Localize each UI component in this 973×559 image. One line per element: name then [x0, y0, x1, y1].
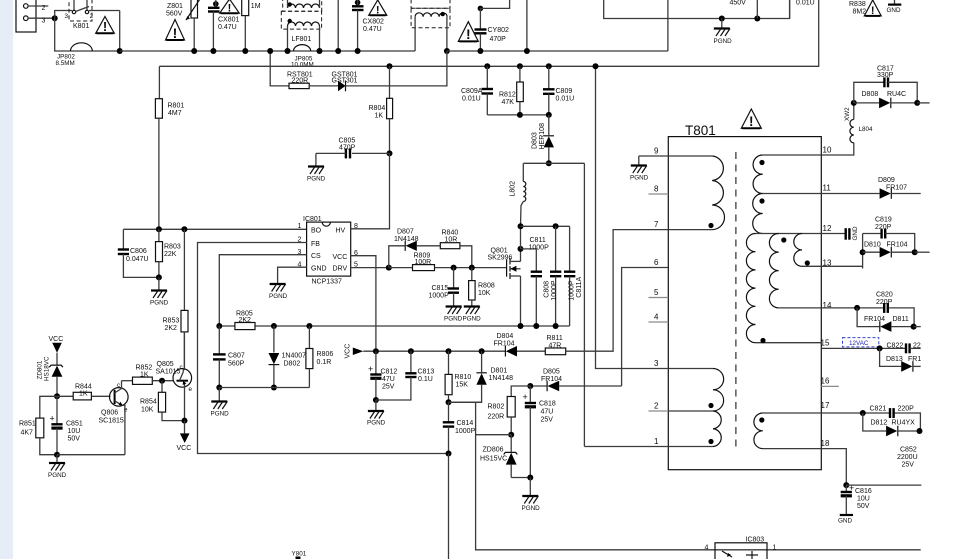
resistor R811: [545, 348, 565, 355]
svg-text:0.47U: 0.47U: [218, 24, 237, 31]
capacitor CY802: [475, 0, 510, 51]
svg-text:FR104: FR104: [887, 242, 908, 249]
wire BO rail: [123, 228, 306, 230]
zener ZD806: [504, 435, 518, 478]
node drain jog C811: [518, 246, 524, 252]
IC op U IC801: [298, 216, 359, 276]
node: [373, 397, 379, 403]
svg-text:9: 9: [654, 147, 659, 156]
wire CS line: [219, 255, 306, 326]
capacitor C817: [854, 77, 917, 103]
warning triangle CX802: [369, 0, 387, 17]
svg-text:!: !: [871, 5, 875, 17]
svg-text:47U: 47U: [541, 409, 554, 416]
warning triangle R838: [864, 0, 881, 17]
svg-text:C851: C851: [66, 421, 83, 428]
core dashed line: [735, 152, 737, 448]
diode D807: [389, 241, 441, 268]
node: [851, 100, 857, 106]
svg-text:c: c: [117, 382, 120, 389]
wire RBT bypass: [270, 51, 289, 86]
node: [191, 48, 197, 54]
svg-text:1000P: 1000P: [529, 245, 550, 252]
svg-text:R804: R804: [369, 105, 386, 112]
warning triangle CX801: [220, 0, 240, 15]
svg-text:5: 5: [654, 288, 659, 297]
diode D804: [505, 346, 545, 357]
svg-text:C818: C818: [539, 401, 556, 408]
svg-text:FR104: FR104: [864, 316, 885, 323]
wire R840 to gate row: [460, 246, 472, 268]
resistor R801: [155, 66, 162, 229]
wire rail1 end up: [667, 0, 669, 51]
svg-text:D811: D811: [893, 316, 909, 323]
node: [271, 385, 277, 391]
svg-text:PGND: PGND: [48, 472, 67, 479]
svg-text:R812: R812: [499, 92, 516, 99]
warning triangle T801: [741, 109, 761, 129]
svg-text:100R: 100R: [415, 259, 432, 266]
node: [182, 418, 188, 424]
svg-text:L802: L802: [510, 181, 517, 197]
svg-text:14: 14: [823, 301, 832, 310]
node filter output: [444, 48, 450, 54]
wire bulk cap lead: [756, 0, 758, 19]
svg-text:VCC: VCC: [49, 336, 64, 343]
svg-text:0.01U: 0.01U: [556, 96, 575, 103]
svg-text:R844: R844: [75, 384, 92, 391]
svg-text:CY802: CY802: [488, 27, 510, 34]
svg-text:CS: CS: [311, 253, 321, 260]
svg-text:PGND: PGND: [307, 176, 326, 183]
svg-text:HS18VC: HS18VC: [44, 356, 51, 381]
svg-text:1000P: 1000P: [455, 428, 476, 435]
svg-text:C852: C852: [900, 447, 917, 454]
svg-text:47U: 47U: [382, 376, 395, 383]
svg-text:12VAC: 12VAC: [849, 340, 869, 347]
jumper JP802: [71, 43, 93, 51]
winding secondary S4 mid tap (to 14): [769, 234, 821, 308]
svg-text:C814: C814: [457, 420, 474, 427]
wire down to rail: [119, 11, 121, 52]
svg-text:!: !: [228, 3, 232, 15]
svg-text:10K: 10K: [141, 407, 154, 414]
svg-text:2: 2: [654, 402, 659, 411]
resistor R810: [445, 351, 452, 402]
capacitor C809: [543, 63, 555, 115]
resistor R805: [235, 323, 255, 330]
svg-text:C822: C822: [887, 343, 904, 350]
resistor R804: [387, 66, 393, 153]
svg-text:R851: R851: [19, 421, 36, 428]
svg-text:2: 2: [90, 13, 94, 20]
resistor R844: [57, 392, 111, 400]
node R810 bottom: [446, 399, 452, 405]
svg-text:0.47U: 0.47U: [363, 26, 382, 33]
node: [285, 48, 291, 54]
svg-text:220P: 220P: [876, 299, 893, 306]
wire drain rail: [520, 226, 522, 249]
ground PGND C818: [522, 478, 541, 513]
node clamp: [546, 160, 552, 166]
svg-text:50V: 50V: [68, 436, 81, 443]
svg-text:!: !: [466, 26, 471, 42]
svg-text:47K: 47K: [502, 99, 515, 106]
node: [210, 48, 216, 54]
wire sense bottom: [219, 387, 309, 389]
capacitor C822: [906, 342, 921, 354]
node: [917, 428, 923, 434]
ground PGND R808: [463, 307, 482, 323]
svg-text:4: 4: [654, 313, 659, 322]
wire R811 to pin7: [566, 230, 668, 352]
ground PGND left: [48, 455, 67, 479]
ground GND C816: [838, 515, 853, 525]
svg-text:+: +: [368, 364, 373, 374]
svg-text:GST301: GST301: [332, 78, 358, 85]
wire snubber bottom: [487, 114, 549, 116]
wire output rail: [846, 484, 921, 486]
svg-text:+: +: [523, 392, 528, 402]
node: [524, 48, 530, 54]
svg-text:FR1: FR1: [908, 356, 921, 363]
svg-text:ZD801: ZD801: [37, 360, 44, 379]
svg-text:R801: R801: [168, 103, 185, 110]
svg-text:3: 3: [65, 13, 69, 20]
node: [477, 48, 483, 54]
diode D808: [854, 98, 917, 109]
capacitor C818: [523, 386, 537, 478]
svg-text:FB: FB: [311, 241, 320, 248]
svg-text:4M7: 4M7: [168, 110, 182, 117]
wire opto branch: [476, 434, 512, 436]
transistor Q801 MOSFET: [507, 249, 521, 326]
svg-text:C809A: C809A: [461, 88, 483, 95]
wire DRV pin: [351, 267, 389, 269]
svg-text:R806: R806: [317, 351, 334, 358]
svg-text:1M: 1M: [251, 3, 261, 10]
svg-text:e: e: [189, 386, 193, 393]
svg-text:CX801: CX801: [218, 17, 240, 24]
capacitor C807: [213, 326, 226, 388]
ground PGND IC: [269, 284, 288, 300]
svg-text:D813: D813: [886, 356, 903, 363]
transistor Q806: [110, 381, 129, 455]
svg-text:+: +: [50, 414, 55, 424]
resistor RBT801: [289, 83, 309, 88]
svg-text:HER108: HER108: [539, 123, 546, 150]
svg-text:BO: BO: [311, 227, 322, 234]
wire 0.01U cap lead: [789, 0, 791, 19]
resistor R853: [181, 229, 188, 369]
svg-text:R854: R854: [140, 399, 157, 406]
wire: [309, 85, 338, 87]
wire bulk minus path: [604, 0, 790, 19]
svg-text:330P: 330P: [877, 72, 894, 79]
svg-text:25V: 25V: [541, 417, 554, 424]
node: [54, 452, 60, 458]
svg-text:R811: R811: [547, 335, 563, 342]
line filter LF801: [281, 0, 321, 51]
svg-text:HS15VC: HS15VC: [480, 456, 507, 463]
capacitor C809A: [482, 63, 494, 115]
svg-text:Q801: Q801: [491, 248, 508, 255]
wire 1M to rail: [244, 16, 246, 51]
svg-text:8.5MM: 8.5MM: [56, 60, 75, 67]
wire bridge input drop: [337, 0, 339, 51]
svg-text:C811A: C811A: [576, 276, 583, 297]
svg-text:1N4007: 1N4007: [282, 353, 307, 360]
svg-text:8M2: 8M2: [853, 9, 867, 16]
svg-text:220R: 220R: [292, 78, 309, 85]
svg-text:C805: C805: [339, 138, 356, 145]
node: [843, 482, 849, 488]
ground PGND C815: [444, 307, 463, 323]
diode D805: [530, 381, 621, 392]
svg-text:1K: 1K: [79, 391, 88, 398]
svg-text:22K: 22K: [164, 251, 177, 258]
node: [754, 16, 760, 22]
svg-text:0.1U: 0.1U: [418, 376, 433, 383]
svg-text:GND: GND: [852, 226, 859, 240]
svg-text:PGND: PGND: [367, 420, 386, 427]
diode D803: [544, 115, 554, 163]
svg-text:D807: D807: [397, 229, 414, 236]
winding primary B (3-2): [668, 369, 723, 412]
svg-text:50V: 50V: [857, 503, 870, 510]
svg-text:FR104: FR104: [494, 340, 515, 347]
capacitor C819: [863, 229, 915, 269]
svg-text:LF801: LF801: [292, 36, 312, 43]
svg-text:GND: GND: [311, 265, 327, 272]
svg-text:11: 11: [823, 184, 832, 193]
svg-text:PGND: PGND: [444, 316, 463, 323]
svg-text:L804: L804: [859, 126, 874, 133]
winding secondary S1 (10-11): [753, 155, 821, 194]
wire zener to C818 col: [511, 477, 530, 479]
svg-text:0.01U: 0.01U: [462, 96, 481, 103]
wire drain to T801 pin1: [583, 163, 585, 446]
capacitor C816: [841, 483, 855, 514]
svg-text:D802: D802: [284, 361, 301, 368]
resistor R802: [507, 386, 530, 435]
svg-text:RU4C: RU4C: [887, 91, 906, 98]
svg-text:10R: 10R: [445, 237, 458, 244]
svg-text:C811: C811: [530, 237, 546, 244]
svg-text:D809: D809: [878, 177, 895, 184]
svg-text:DRV: DRV: [333, 265, 348, 272]
wire opto feedback: [449, 401, 482, 403]
svg-text:SK2996: SK2996: [488, 255, 513, 262]
svg-text:10: 10: [823, 146, 832, 155]
wire K801 to right: [89, 10, 120, 12]
capacitor C813: [376, 351, 417, 400]
wire: [346, 51, 447, 86]
capacitor C811: [521, 249, 543, 326]
capacitor CX802: [352, 0, 364, 51]
svg-text:470P: 470P: [339, 145, 356, 152]
winding secondary S6 (17-18): [754, 413, 821, 449]
wire VCC rail: [363, 350, 505, 352]
svg-text:450V: 450V: [730, 0, 747, 7]
jumper JP805: [294, 45, 311, 51]
svg-text:C806: C806: [130, 248, 147, 255]
node rail dot: [117, 48, 123, 54]
ground GND top: [887, 0, 902, 14]
svg-text:2: 2: [42, 5, 46, 12]
svg-text:1000P: 1000P: [551, 280, 558, 301]
svg-text:220P: 220P: [875, 224, 892, 231]
wire HV drop: [526, 0, 528, 51]
svg-text:10U: 10U: [68, 428, 81, 435]
svg-text:220R: 220R: [488, 414, 505, 421]
svg-text:1000P: 1000P: [569, 280, 576, 301]
resistor R809: [389, 265, 507, 271]
svg-text:T801: T801: [685, 123, 716, 138]
diode D812: [863, 413, 921, 436]
svg-text:PGND: PGND: [211, 411, 230, 418]
wire pin3: [28, 17, 55, 19]
svg-text:17: 17: [821, 401, 830, 410]
svg-text:Q805: Q805: [157, 361, 174, 368]
svg-text:XW2: XW2: [844, 107, 851, 121]
warning triangle CY802: [458, 22, 478, 43]
svg-text:HV: HV: [336, 227, 346, 234]
svg-text:FR104: FR104: [541, 376, 562, 383]
ground PGND C807: [211, 388, 230, 418]
svg-text:8: 8: [654, 185, 659, 194]
node 12VAC label: [843, 338, 879, 347]
svg-text:C812: C812: [381, 369, 398, 376]
warning triangle: [96, 17, 115, 35]
svg-text:2200U: 2200U: [897, 454, 918, 461]
wire HV pin: [351, 153, 390, 228]
svg-text:R838: R838: [849, 1, 866, 8]
svg-text:R810: R810: [455, 374, 472, 381]
svg-text:15: 15: [821, 339, 830, 348]
resistor R840: [440, 243, 460, 249]
resistor R803: [156, 229, 163, 277]
capacitor C812: [368, 351, 382, 400]
svg-text:R853: R853: [163, 318, 180, 325]
resistor R854: [158, 381, 184, 421]
svg-text:D812: D812: [871, 420, 888, 427]
svg-text:7: 7: [654, 220, 659, 229]
svg-text:CX802: CX802: [363, 19, 385, 26]
svg-text:SA1015: SA1015: [156, 368, 181, 375]
svg-text:22: 22: [913, 343, 921, 350]
svg-text:12: 12: [823, 224, 832, 233]
transformer T801 box: [668, 137, 821, 470]
node + stub: [911, 324, 917, 330]
line filter LF802: [411, 0, 450, 51]
svg-text:R803: R803: [164, 244, 181, 251]
wire VCC pin6: [351, 256, 376, 352]
svg-text:R802: R802: [488, 404, 505, 411]
inductor L802: [521, 163, 526, 226]
node: [216, 385, 222, 391]
svg-text:6: 6: [654, 258, 659, 267]
connector P801: [16, 0, 36, 32]
wire GND pin: [278, 267, 307, 283]
winding secondary S2 (11-12): [753, 194, 765, 234]
svg-text:0.047U: 0.047U: [126, 256, 149, 263]
wire clamp node: [523, 162, 584, 164]
node: [159, 378, 165, 384]
svg-text:C813: C813: [418, 369, 435, 376]
svg-text:4K7: 4K7: [21, 430, 34, 437]
svg-text:C808: C808: [544, 281, 551, 298]
wire rail2 B+: [159, 0, 818, 66]
wire source rail: [219, 325, 569, 327]
node: [156, 274, 162, 280]
svg-text:ZD806: ZD806: [483, 447, 504, 454]
wire Z801 to rail: [193, 18, 195, 51]
node: [242, 48, 248, 54]
wire bottom rail: [57, 454, 125, 456]
resistor R808: [469, 268, 476, 306]
svg-text:GND: GND: [887, 7, 901, 14]
svg-text:SC1815: SC1815: [99, 418, 124, 425]
svg-text:25V: 25V: [382, 384, 395, 391]
svg-text:Y801: Y801: [292, 551, 307, 558]
node VCC arrow down Q805: [177, 421, 192, 452]
svg-text:C816: C816: [855, 488, 872, 495]
svg-text:D803: D803: [532, 132, 539, 149]
svg-text:!: !: [173, 25, 178, 41]
svg-text:NCP1337: NCP1337: [312, 279, 342, 286]
svg-text:18: 18: [821, 439, 830, 448]
node D805 left: [527, 383, 533, 389]
svg-text:IC803: IC803: [746, 537, 765, 544]
capacitor C851: [50, 396, 63, 454]
diode D802: [269, 323, 280, 388]
node: [355, 48, 361, 54]
winding primary A (9-7): [668, 156, 724, 230]
node R802 bottom: [508, 432, 514, 438]
wire to bottom edge: [448, 454, 450, 559]
ground PGND C812: [367, 400, 386, 427]
wire pin2: [28, 5, 48, 7]
wire rail1 mid: [447, 50, 668, 52]
svg-text:1K: 1K: [140, 372, 149, 379]
varistor Z801: [186, 0, 200, 20]
svg-text:D801: D801: [491, 368, 508, 375]
surge arrester GST801: [338, 81, 346, 92]
svg-text:D810: D810: [864, 242, 881, 249]
svg-text:560P: 560P: [228, 361, 245, 368]
winding secondary S3 (12-15 outer): [746, 234, 821, 344]
svg-text:Z801: Z801: [167, 3, 183, 10]
svg-text:PGND: PGND: [714, 38, 733, 45]
diode D813: [880, 348, 921, 371]
svg-text:GND: GND: [838, 518, 852, 525]
svg-text:1: 1: [654, 437, 659, 446]
diode D811: [857, 308, 914, 332]
svg-text:PGND: PGND: [150, 300, 169, 307]
svg-text:C807: C807: [228, 353, 245, 360]
node + stub: [912, 249, 918, 255]
node R804 on rail2: [387, 63, 393, 69]
svg-text:D808: D808: [862, 91, 879, 98]
node: [335, 48, 341, 54]
svg-text:PGND: PGND: [522, 505, 541, 512]
diode D801: [449, 351, 487, 402]
svg-text:R852: R852: [136, 365, 153, 372]
svg-text:D805: D805: [543, 369, 560, 376]
node VCC arrow: [345, 344, 364, 359]
wire JP802 row: [55, 18, 120, 51]
